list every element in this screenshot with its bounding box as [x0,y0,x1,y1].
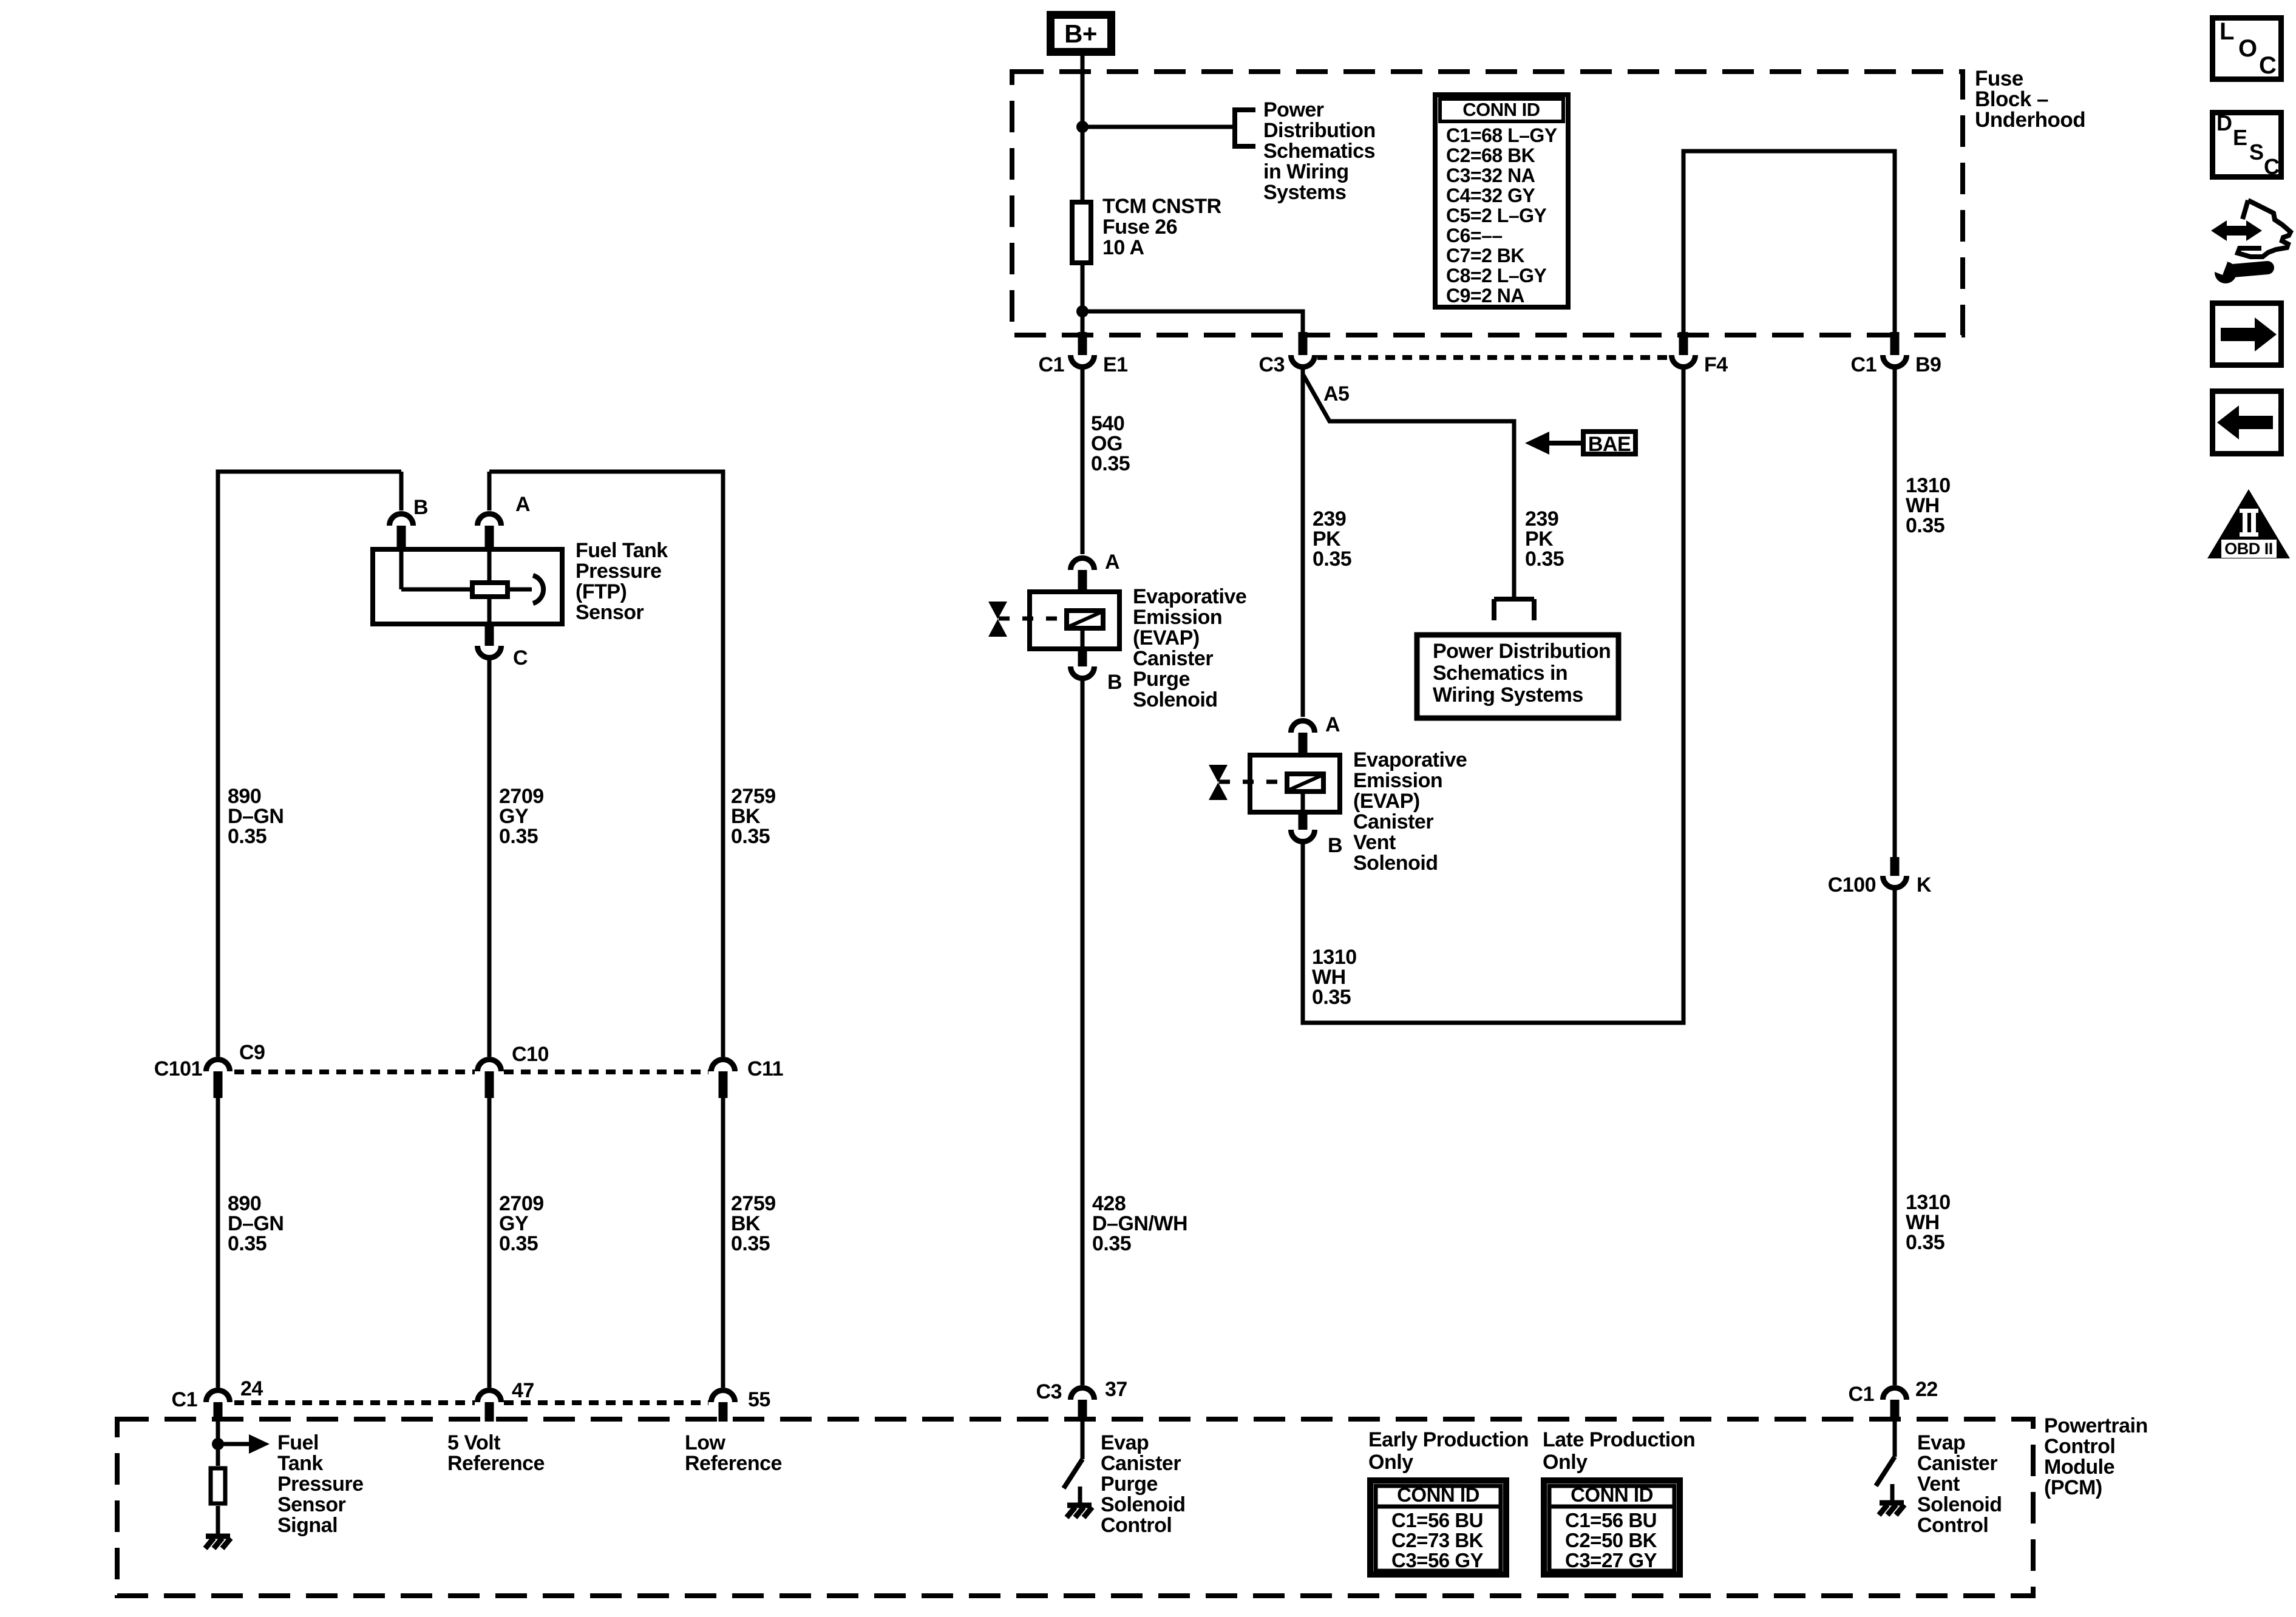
svg-text:S: S [2249,140,2264,164]
connector C3 on fuse block [1299,332,1308,355]
svg-text:O: O [2238,35,2257,62]
fuel tank pressure sensor signal branch [216,1422,220,1466]
FTP sensor box [373,549,562,624]
svg-text:TCM CNSTR: TCM CNSTR [1102,195,1221,218]
svg-text:C1: C1 [172,1388,197,1411]
fuse TCM CNSTR Fuse 26 10A [1072,202,1091,263]
connector pin A vent solenoid [1291,721,1315,733]
svg-text:0.35: 0.35 [1525,547,1564,571]
svg-text:Power Distribution: Power Distribution [1433,640,1611,663]
svg-text:Evaporative: Evaporative [1353,748,1467,771]
ground [206,1534,230,1539]
svg-text:Pressure: Pressure [277,1473,364,1496]
svg-text:Pressure: Pressure [576,560,662,583]
connector pin B purge solenoid [1078,651,1087,666]
svg-text:C6=––: C6=–– [1446,225,1503,246]
svg-text:Schematics: Schematics [1263,140,1375,163]
svg-text:C3: C3 [1259,353,1285,376]
CONN ID table (fuse block) [1435,95,1568,307]
svg-text:in Wiring: in Wiring [1263,160,1349,183]
svg-text:Purge: Purge [1133,668,1190,691]
junction node [1076,305,1089,317]
wire B to resistor [401,588,470,592]
svg-text:C4=32 GY: C4=32 GY [1446,185,1535,206]
svg-text:C1=68 L–GY: C1=68 L–GY [1446,124,1557,146]
connector pin B vent solenoid [1299,815,1308,830]
svg-text:F4: F4 [1704,353,1728,376]
inner feed rectangle to F4/B9 [1683,151,1895,333]
svg-text:A: A [515,493,530,516]
svg-text:Solenoid: Solenoid [1101,1493,1186,1516]
connector terminal 47 at PCM [478,1391,501,1403]
svg-text:(FTP): (FTP) [576,580,627,603]
wire to power distribution tap [1082,125,1235,129]
svg-text:Wiring Systems: Wiring Systems [1433,683,1583,707]
wire pin A internal drop [487,548,492,580]
svg-text:C9: C9 [239,1041,265,1064]
wire pin B internal drop [399,548,404,589]
wire top-right horizontal [489,472,723,1057]
svg-text:Underhood: Underhood [1975,108,2085,132]
svg-text:Tank: Tank [277,1452,323,1475]
late production CONN ID table [1544,1480,1680,1575]
vent solenoid coil [1287,774,1323,792]
connector pin C of FTP [485,626,494,646]
wire pin C down [487,659,492,1057]
PCM connector row C1 [234,1400,475,1405]
svg-text:Module: Module [2044,1456,2114,1479]
svg-text:C2=68 BK: C2=68 BK [1446,144,1535,166]
svg-text:0.35: 0.35 [499,825,538,848]
wire to pin B [399,472,404,510]
wire B+ to fuse [1081,56,1085,334]
svg-text:Canister: Canister [1101,1452,1181,1475]
DESC icon [2213,113,2281,177]
svg-text:C9=2 NA: C9=2 NA [1446,285,1524,307]
svg-text:Vent: Vent [1917,1473,1960,1496]
connector terminal 55 at PCM [712,1391,735,1403]
svg-text:(EVAP): (EVAP) [1133,626,1200,649]
svg-text:C3=32 NA: C3=32 NA [1446,164,1535,186]
svg-text:0.35: 0.35 [1312,986,1351,1009]
svg-text:C1: C1 [1039,353,1064,376]
PCM internal resistor [211,1468,225,1503]
OBD II icon [2207,489,2290,558]
svg-text:Evaporative: Evaporative [1133,585,1246,608]
svg-text:Purge: Purge [1101,1473,1158,1496]
svg-text:C100: C100 [1828,873,1876,897]
svg-text:C: C [2259,52,2276,79]
connector terminal 22 at PCM [1883,1388,1907,1400]
wire C11 to terminal 55 [721,1096,725,1388]
svg-text:B+: B+ [1064,19,1097,48]
svg-text:C1: C1 [1849,1383,1874,1406]
wire resistor to pin C [487,599,492,626]
svg-text:Early Production: Early Production [1368,1428,1529,1451]
svg-text:55: 55 [748,1388,770,1411]
connector row C101 [234,1070,475,1074]
junction node [1076,121,1089,133]
svg-text:0.35: 0.35 [1906,1231,1944,1254]
service tool icon [2227,226,2246,236]
svg-text:Low: Low [685,1431,726,1454]
connector pin B of FTP [390,514,413,526]
connector C10 [478,1060,501,1071]
arrow right icon [2213,303,2281,365]
svg-text:Evap: Evap [1917,1431,1965,1454]
svg-text:0.35: 0.35 [1091,452,1130,475]
svg-text:0.35: 0.35 [1313,547,1351,571]
svg-text:Fuel: Fuel [277,1431,319,1454]
svg-text:C3=56 GY: C3=56 GY [1391,1549,1483,1571]
svg-text:C8=2 L–GY: C8=2 L–GY [1446,265,1547,286]
svg-text:Reference: Reference [685,1452,782,1475]
svg-text:22: 22 [1915,1378,1938,1401]
svg-text:Sensor: Sensor [277,1493,346,1516]
svg-text:C3=27 GY: C3=27 GY [1565,1549,1657,1571]
early production CONN ID table [1370,1480,1506,1575]
svg-text:CONN ID: CONN ID [1397,1483,1479,1506]
svg-text:C7=2 BK: C7=2 BK [1446,245,1524,266]
connector C1 B9 on fuse block [1890,332,1900,355]
svg-text:Canister: Canister [1917,1452,1997,1475]
svg-text:Canister: Canister [1353,810,1433,833]
svg-text:B: B [1107,671,1122,694]
svg-text:A5: A5 [1323,382,1349,405]
connector C100 K [1890,857,1900,876]
svg-text:0.35: 0.35 [228,1232,267,1255]
svg-text:10 A: 10 A [1102,236,1144,259]
A5 branch diagonal [1303,375,1514,598]
svg-text:Fuel Tank: Fuel Tank [576,539,668,562]
power distribution schematics box [1417,635,1618,718]
wire resistor to pressure port [510,588,532,592]
svg-text:B: B [1328,834,1342,857]
svg-text:Distribution: Distribution [1263,119,1376,142]
svg-text:5 Volt: 5 Volt [447,1431,500,1454]
svg-text:0.35: 0.35 [1906,514,1944,537]
svg-text:CONN ID: CONN ID [1571,1483,1653,1506]
vent solenoid valve symbol [1209,765,1228,782]
svg-text:C1=56 BU: C1=56 BU [1391,1509,1483,1531]
svg-text:C101: C101 [154,1057,202,1080]
svg-text:Only: Only [1368,1451,1413,1474]
svg-text:A: A [1325,713,1340,736]
ground [1067,1503,1092,1508]
svg-text:Control: Control [1917,1514,1988,1537]
svg-text:C: C [2264,154,2280,179]
off-page bracket to power distribution box [1494,597,1534,602]
svg-text:Only: Only [1543,1451,1588,1474]
wire C10 to terminal 47 [487,1096,492,1388]
connector C1 E1 on fuse block [1078,332,1087,355]
purge solenoid control driver [1081,1422,1085,1459]
wire B9 down [1893,367,1897,857]
svg-text:Control: Control [1101,1514,1172,1537]
svg-text:A: A [1105,551,1119,574]
wire purge B to PCM 37 [1081,680,1085,1385]
purge solenoid coil [1067,611,1103,628]
svg-text:37: 37 [1105,1378,1127,1401]
wire E1 to purge solenoid [1081,367,1085,554]
wire to pin A [487,472,492,510]
svg-text:CONN ID: CONN ID [1462,99,1540,120]
svg-text:Late Production: Late Production [1543,1428,1695,1451]
connector pin A of FTP [478,514,501,526]
FTP pressure port crescent [533,575,543,603]
svg-text:C2=50 BK: C2=50 BK [1565,1529,1657,1551]
B+ power symbol [1047,11,1115,56]
svg-text:Schematics in: Schematics in [1433,662,1567,685]
svg-text:0.35: 0.35 [731,825,770,848]
purge solenoid valve symbol [988,602,1007,619]
wire branch to C3 [1082,311,1303,334]
svg-text:C1=56 BU: C1=56 BU [1565,1509,1657,1531]
PCM dashed box [117,1419,2033,1596]
svg-text:K: K [1917,873,1932,897]
wire C9 to terminal 24 [216,1096,220,1388]
svg-text:C2=73 BK: C2=73 BK [1391,1529,1484,1551]
EVAP canister vent solenoid box [1250,755,1340,812]
wire top-left horizontal [218,472,401,1057]
BAE box [1583,432,1635,454]
svg-text:Solenoid: Solenoid [1353,852,1438,875]
svg-text:L: L [2220,18,2234,45]
svg-text:Sensor: Sensor [576,601,644,624]
svg-text:Emission: Emission [1133,606,1222,629]
FTP internal resistor [472,583,508,597]
svg-text:Reference: Reference [447,1452,545,1475]
svg-text:Systems: Systems [1263,181,1346,204]
svg-text:Solenoid: Solenoid [1133,688,1218,711]
connector terminal 37 at PCM [1071,1388,1095,1400]
connector C9 [206,1060,230,1071]
svg-text:Powertrain: Powertrain [2044,1414,2148,1437]
ground [1880,1500,1904,1506]
svg-text:E: E [2233,125,2247,150]
svg-text:24: 24 [240,1377,263,1400]
connector row fuse block C3 to F4 [1317,355,1669,360]
svg-text:0.35: 0.35 [499,1232,538,1255]
svg-text:C10: C10 [512,1043,549,1066]
EVAP canister purge solenoid box [1030,592,1119,649]
connector C11 [712,1060,735,1071]
svg-text:C5=2 L–GY: C5=2 L–GY [1446,205,1547,226]
wire vent B to F4 [1303,367,1683,1023]
BAE arrow [1548,441,1581,446]
off-page bracket power distribution [1232,107,1237,149]
svg-text:C1: C1 [1851,353,1877,376]
svg-text:47: 47 [512,1379,534,1402]
svg-text:Evap: Evap [1101,1431,1149,1454]
svg-text:0.35: 0.35 [731,1232,770,1255]
vent solenoid control driver [1893,1422,1897,1457]
fuse block underhood dashed box [1012,72,1963,335]
svg-text:C3: C3 [1036,1380,1062,1403]
svg-text:0.35: 0.35 [228,825,267,848]
svg-text:Canister: Canister [1133,647,1213,670]
connector pin A purge solenoid [1071,558,1095,571]
valve linkage dashes [1219,780,1285,784]
svg-text:Control: Control [2044,1435,2115,1458]
svg-text:Vent: Vent [1353,831,1396,854]
svg-text:B9: B9 [1915,353,1941,376]
wrench [2215,262,2237,283]
svg-text:Fuse 26: Fuse 26 [1102,215,1177,239]
connector terminal 24 at PCM [206,1391,230,1403]
LOC icon [2213,18,2281,80]
svg-text:C11: C11 [747,1057,783,1080]
svg-text:C: C [513,646,528,670]
wire C3/A5 down [1301,367,1305,717]
svg-text:Power: Power [1263,98,1324,121]
valve linkage dashes [999,617,1064,621]
svg-text:Solenoid: Solenoid [1917,1493,2002,1516]
svg-text:(PCM): (PCM) [2044,1476,2102,1499]
svg-text:OBD II: OBD II [2224,540,2273,558]
wire K down to 22 [1893,889,1897,1385]
svg-text:BAE: BAE [1588,433,1631,456]
svg-text:(EVAP): (EVAP) [1353,790,1420,813]
connector F4 on fuse block [1679,332,1688,355]
svg-text:Signal: Signal [277,1514,338,1537]
arrow left icon [2213,392,2281,454]
svg-text:0.35: 0.35 [1092,1232,1131,1255]
svg-text:E1: E1 [1103,353,1128,376]
svg-text:D: D [2216,110,2232,135]
svg-text:Emission: Emission [1353,769,1442,792]
svg-text:B: B [413,496,428,519]
